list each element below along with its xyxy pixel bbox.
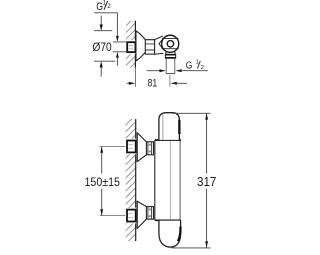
bottom cap right shading xyxy=(178,227,181,242)
outlet neck xyxy=(166,52,175,55)
dim 317 line upper part xyxy=(206,113,208,173)
svg-text:81: 81 xyxy=(148,78,158,90)
Ø70 lower arrow xyxy=(100,61,103,67)
body circle (elbow head) xyxy=(162,35,179,52)
white halo top union xyxy=(125,139,136,155)
bottom union hex nut xyxy=(146,207,153,220)
svg-text:150±15: 150±15 xyxy=(85,175,121,189)
square wall-thread nut G1/2 (top drawing) xyxy=(127,42,135,52)
chord lines on body xyxy=(162,39,179,49)
svg-text:Ø70: Ø70 xyxy=(92,40,111,54)
top union escutcheon xyxy=(136,132,138,162)
dim 317 extension line top xyxy=(172,112,210,114)
screw head inner circle xyxy=(167,41,173,47)
dim 150±15 line upper part xyxy=(101,147,103,174)
svg-text:2: 2 xyxy=(201,65,204,71)
svg-text:G: G xyxy=(186,61,193,72)
top cap inner highlight xyxy=(162,114,164,139)
dim 81 line left segment with arrow xyxy=(127,82,131,84)
outlet nut xyxy=(165,54,175,58)
svg-text:2: 2 xyxy=(107,4,111,10)
body top edge xyxy=(155,139,181,141)
bottom union leader line xyxy=(100,215,127,217)
body highlight line xyxy=(169,141,171,219)
dim 317 extension line bottom xyxy=(172,247,211,249)
top union hex nut xyxy=(146,142,153,155)
wall hatch (bottom drawing) xyxy=(126,119,136,241)
thermostat body xyxy=(155,140,180,220)
escutcheon base at wall xyxy=(135,31,137,62)
wall face line (top drawing) xyxy=(134,21,136,68)
wall face line (bottom drawing) xyxy=(135,119,137,241)
top cap dome xyxy=(159,113,180,140)
wall hatch (top drawing) xyxy=(126,21,135,68)
dim 317 line lower part xyxy=(206,189,208,248)
white halo bottom union xyxy=(125,208,136,224)
arrow up to nut bottom xyxy=(116,52,119,58)
body transition cone with notch xyxy=(155,36,164,54)
dim 150±15 line lower part xyxy=(101,189,103,216)
white halo around square nut xyxy=(126,40,137,54)
G1/2 outlet dim arrows xyxy=(147,70,161,72)
top union leader line xyxy=(100,146,127,148)
escutcheon cone outline xyxy=(136,31,145,61)
top union square nut xyxy=(127,141,136,153)
bottom cap dome xyxy=(159,221,181,248)
bottom union escutcheon xyxy=(136,201,138,229)
dim Ø70 extension lines xyxy=(94,31,115,62)
top cap right shading xyxy=(178,120,180,134)
svg-text:317: 317 xyxy=(197,174,216,189)
thread marks inside square nut xyxy=(129,45,133,49)
dim 81 line right segment with arrow xyxy=(170,82,177,85)
body bottom edge xyxy=(155,219,181,221)
pipe centerline extension for 81 dim xyxy=(169,75,171,87)
bottom union square nut xyxy=(127,210,136,222)
Ø70 upper arrow xyxy=(100,16,102,25)
wall face extension line for 81 dim xyxy=(134,68,136,87)
outlet pipe G1/2 xyxy=(166,58,175,74)
extension lines of G1/2 thread dim xyxy=(113,42,127,52)
hex nut (top drawing) xyxy=(145,40,154,54)
leader line under G1/2 xyxy=(94,13,117,36)
hex nut flat lines xyxy=(145,44,154,50)
leader arrow down to nut top xyxy=(116,36,119,42)
